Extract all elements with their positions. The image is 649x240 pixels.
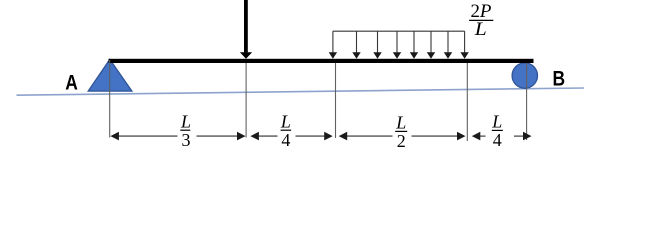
dimension label L/4 [280,111,291,150]
dimension label L/4 right [491,111,503,150]
svg-text:L: L [280,111,291,131]
dimension L/3 (double arrow 110.4 to 245.5) [110,132,245,141]
svg-text:L: L [395,112,406,132]
extension line at start of UDL (x=335.5) [335,63,337,138]
extension line at point load (x=246.1) [245,63,247,138]
svg-text:B: B [553,68,566,91]
dimension label L/3 [180,111,191,150]
svg-text:4: 4 [281,130,290,150]
dimension L/4 right (double arrow 471.8 to 528.3) [472,132,532,141]
point load P (vertical arrow at x=246) [240,0,252,59]
svg-text:L: L [180,111,191,131]
extension line at B (x=526.6) [526,63,528,140]
extension line at end of UDL (x=467.3) [466,63,468,141]
distributed load 2P/L (top line + 8 arrows) [329,31,469,59]
svg-text:4: 4 [493,130,502,150]
beam [109,59,534,63]
baseline (light blue inclined line) [17,88,585,95]
svg-text:A: A [65,72,78,95]
svg-text:L: L [474,20,487,40]
dimension L/4 (double arrow 250.4 to 332.7) [250,132,332,141]
load intensity label 2P/L [469,2,493,40]
svg-text:L: L [491,111,502,131]
support B (roller, blue circle) [512,63,537,88]
support A (pin, blue triangle) [88,59,132,91]
dimension L/2 (double arrow 338.7 to 465.5) [339,132,466,141]
dimension label L/2 [395,112,407,151]
svg-text:2P: 2P [471,2,492,22]
svg-text:3: 3 [182,130,191,150]
extension line at A (x=109.7) [109,60,111,138]
svg-text:2: 2 [397,131,406,151]
